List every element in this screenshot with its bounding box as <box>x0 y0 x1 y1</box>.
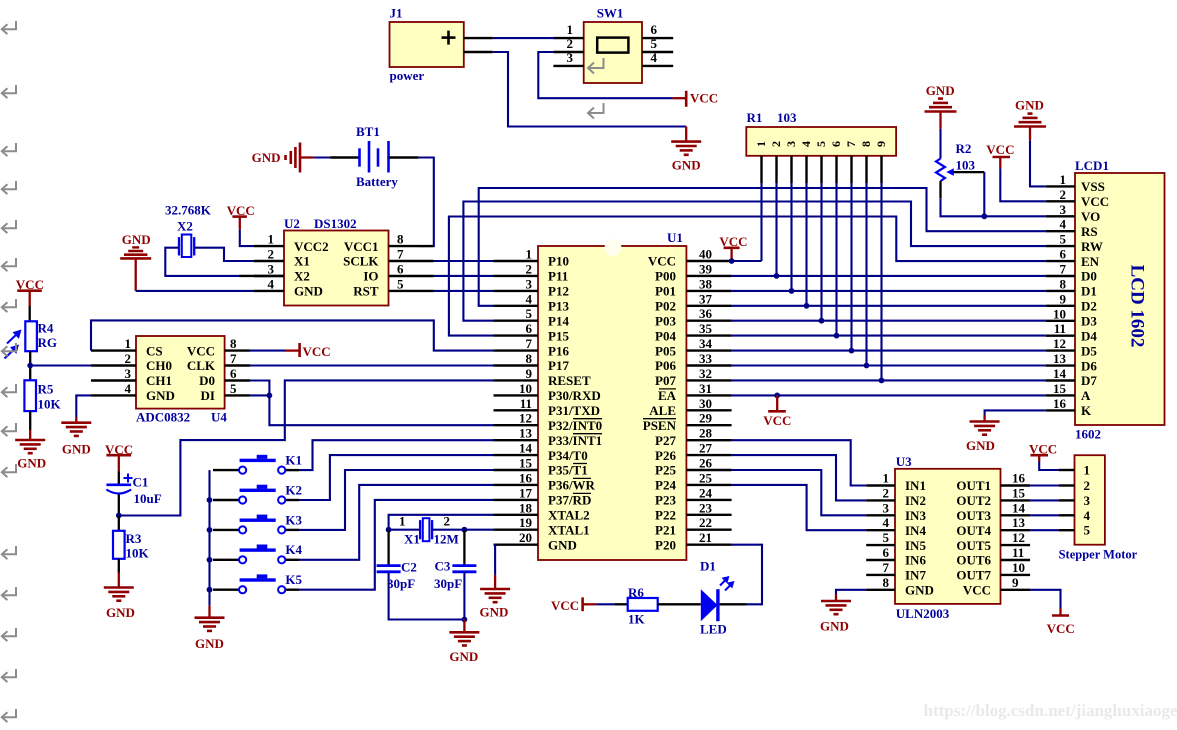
svg-text:CH1: CH1 <box>146 373 172 388</box>
svg-text:4: 4 <box>1084 508 1091 523</box>
svg-text:LCD1: LCD1 <box>1075 158 1109 173</box>
svg-text:GND: GND <box>672 158 701 173</box>
svg-text:18: 18 <box>519 500 533 515</box>
svg-text:4: 4 <box>883 515 890 530</box>
svg-text:D3: D3 <box>1081 314 1097 329</box>
svg-text:8: 8 <box>397 232 404 247</box>
svg-text:X2: X2 <box>177 219 193 234</box>
svg-text:OUT3: OUT3 <box>956 508 991 523</box>
svg-text:4: 4 <box>125 381 132 396</box>
svg-text:4: 4 <box>799 141 813 147</box>
svg-text:13: 13 <box>519 426 533 441</box>
svg-text:4: 4 <box>526 291 533 306</box>
VCC symbol above stepper pin1 <box>1029 442 1057 462</box>
wire U3 OUT2 to stepper pin3 <box>1030 499 1059 501</box>
connector Stepper Motor <box>1059 455 1138 561</box>
driver U3 ULN2003 <box>895 454 1001 621</box>
svg-text:11: 11 <box>1012 545 1024 560</box>
wire R4-R5 node to ADC CH0 <box>30 364 91 366</box>
svg-text:VSS: VSS <box>1081 179 1105 194</box>
svg-text:10uF: 10uF <box>134 491 162 506</box>
VCC symbol hanging below EA wire <box>763 395 791 428</box>
wire U3 OUT3 to stepper pin4 <box>1030 514 1059 516</box>
U4 right pin stubs <box>225 336 250 396</box>
svg-text:BT1: BT1 <box>356 124 380 139</box>
svg-text:35: 35 <box>699 321 713 336</box>
svg-text:P02: P02 <box>655 299 676 314</box>
svg-text:IO: IO <box>363 269 378 284</box>
resistor R5 10K <box>24 380 61 411</box>
gray return arrow margin 8 <box>2 343 16 356</box>
svg-text:12: 12 <box>519 411 532 426</box>
svg-text:PSEN: PSEN <box>643 418 677 433</box>
wire U1 XTAL2 to X1 <box>389 515 494 530</box>
capacitor C1 10uF <box>106 471 161 515</box>
svg-text:P15: P15 <box>548 328 569 343</box>
VCC symbol left of R6 <box>551 597 596 613</box>
gray return arrow margin 6 <box>2 258 16 271</box>
svg-text:10K: 10K <box>38 397 62 412</box>
capacitor C3 30pF <box>434 530 476 591</box>
wire U1 P06 to LCD D6 <box>732 364 1046 366</box>
ground symbol above R2 <box>925 83 957 129</box>
svg-text:6: 6 <box>230 366 237 381</box>
svg-text:8: 8 <box>883 575 890 590</box>
svg-text:12: 12 <box>1053 336 1066 351</box>
svg-text:D0: D0 <box>199 373 215 388</box>
wire U1 P02 to LCD D2 <box>732 305 1046 307</box>
svg-text:17: 17 <box>519 485 533 500</box>
ground symbol at J1 wire <box>671 127 701 173</box>
svg-text:IN3: IN3 <box>905 508 926 523</box>
svg-text:3: 3 <box>883 500 890 515</box>
svg-text:P14: P14 <box>548 313 569 328</box>
svg-text:IN2: IN2 <box>905 493 926 508</box>
wire U1 P15 to LCD EN <box>449 217 1046 336</box>
svg-text:D4: D4 <box>1081 328 1097 343</box>
svg-text:GND: GND <box>294 284 323 299</box>
svg-text:P00: P00 <box>655 269 676 284</box>
svg-text:DI: DI <box>201 388 215 403</box>
svg-text:CS: CS <box>146 343 163 358</box>
svg-text:25: 25 <box>699 470 713 485</box>
svg-text:2: 2 <box>1084 478 1091 493</box>
gray return arrow margin 10 <box>2 423 16 436</box>
svg-text:GND: GND <box>17 456 46 471</box>
svg-text:CLK: CLK <box>187 358 216 373</box>
svg-text:103: 103 <box>777 110 797 125</box>
svg-text:2: 2 <box>125 351 132 366</box>
svg-text:ULN2003: ULN2003 <box>896 606 950 621</box>
gray return arrow margin 9 <box>2 384 16 397</box>
svg-text:6: 6 <box>1060 247 1067 262</box>
junction C2-C3 ground node <box>462 617 468 623</box>
ground symbol below LCD K <box>966 415 1000 453</box>
svg-text:OUT6: OUT6 <box>956 553 991 568</box>
svg-text:ALE: ALE <box>649 403 676 418</box>
svg-text:P21: P21 <box>655 522 676 537</box>
wire U1 P13 to LCD RS <box>479 188 1046 306</box>
svg-text:2: 2 <box>444 514 451 529</box>
wire U3 OUT1 to stepper pin2 <box>1030 484 1059 486</box>
junction VCC at pin40 <box>729 258 735 264</box>
lead R5 to GND <box>29 411 31 430</box>
svg-text:1: 1 <box>567 22 574 37</box>
svg-text:32: 32 <box>699 366 712 381</box>
connector J1 <box>390 6 464 84</box>
wire U1 P25 to U3 IN3 <box>732 470 867 515</box>
svg-text:C3: C3 <box>435 559 451 574</box>
svg-text:RST: RST <box>353 284 379 299</box>
VCC symbol above R4 <box>16 277 44 306</box>
push button K4 <box>213 542 303 563</box>
wire ADC GND to ground <box>76 395 91 417</box>
junction C1-R3 node <box>116 513 122 519</box>
svg-text:39: 39 <box>699 261 713 276</box>
svg-text:7: 7 <box>230 351 237 366</box>
svg-text:27: 27 <box>699 441 713 456</box>
svg-text:21: 21 <box>699 530 712 545</box>
ground symbol above LCD VSS <box>1014 98 1046 141</box>
svg-text:power: power <box>390 68 425 83</box>
svg-text:8: 8 <box>526 351 533 366</box>
svg-text:D2: D2 <box>1081 299 1097 314</box>
svg-text:https://blog.csdn.net/jianghux: https://blog.csdn.net/jianghuxiaoge <box>924 701 1177 720</box>
svg-text:2: 2 <box>268 247 275 262</box>
svg-text:3: 3 <box>1084 493 1091 508</box>
wire VCC to U2 VCC2 pin <box>240 230 254 246</box>
svg-text:5: 5 <box>397 276 404 291</box>
svg-text:6: 6 <box>829 141 843 147</box>
svg-text:3: 3 <box>567 50 574 65</box>
wire U1 P14 to LCD RW <box>463 202 1045 321</box>
wire U1 P07 to LCD D7 <box>732 379 1046 381</box>
wire DI node to U1 P32 <box>250 395 494 425</box>
wire reset node to U1 RESET <box>119 380 494 515</box>
wire ADC CLK to U1 P17 <box>250 364 494 366</box>
wire U1 pin40 to R1 pin1 <box>732 260 762 262</box>
svg-text:C1: C1 <box>133 475 149 490</box>
wire U1 P01 to LCD D1 <box>732 290 1046 292</box>
svg-text:U2: U2 <box>284 216 300 231</box>
svg-text:XTAL2: XTAL2 <box>548 508 590 523</box>
svg-text:P11: P11 <box>548 269 568 284</box>
wire R2 wiper to VO <box>983 172 985 216</box>
svg-text:37: 37 <box>699 291 713 306</box>
svg-text:31: 31 <box>699 381 712 396</box>
VCC symbol at ADC pin8 <box>250 343 331 359</box>
wire U1 P24 to U3 IN4 <box>732 485 867 530</box>
svg-text:RG: RG <box>38 335 58 350</box>
svg-text:VCC: VCC <box>303 344 331 359</box>
svg-text:LCD 1602: LCD 1602 <box>1127 265 1148 348</box>
svg-text:19: 19 <box>519 515 533 530</box>
U2 right pin stubs <box>389 232 434 292</box>
U4 left pin stubs <box>91 336 136 396</box>
capacitor C2 30pF <box>377 530 417 591</box>
svg-text:P34/T0: P34/T0 <box>548 448 588 463</box>
potentiometer R2 103 <box>936 141 984 198</box>
wire U3 GND pin to ground <box>836 590 866 594</box>
wire U2 RST to U1 P12 <box>434 290 494 292</box>
wire ADC CS to U1 P16 <box>91 320 494 350</box>
svg-text:6: 6 <box>526 321 533 336</box>
svg-text:1: 1 <box>268 232 275 247</box>
polarity plus mark inside J1 <box>442 31 456 45</box>
svg-text:30pF: 30pF <box>387 576 415 591</box>
junction key K2 common <box>207 497 213 503</box>
junction R1 pin6 <box>834 333 840 339</box>
ground symbol below U1 pin20 <box>480 575 511 620</box>
svg-text:1602: 1602 <box>1075 427 1101 442</box>
wire LED to U1 P20 <box>732 545 762 605</box>
wire R1 pin4 down to P02 row <box>805 183 807 306</box>
ground symbol below ADC <box>61 417 91 457</box>
switch SW1 <box>584 6 642 84</box>
svg-text:VCC: VCC <box>963 583 991 598</box>
svg-text:33: 33 <box>699 351 713 366</box>
svg-text:D5: D5 <box>1081 343 1097 358</box>
svg-text:36: 36 <box>699 306 713 321</box>
svg-text:7: 7 <box>397 247 404 262</box>
svg-text:IN5: IN5 <box>905 538 926 553</box>
svg-text:OUT4: OUT4 <box>956 523 991 538</box>
svg-text:12: 12 <box>1012 530 1025 545</box>
svg-text:IN6: IN6 <box>905 553 926 568</box>
svg-text:15: 15 <box>519 456 533 471</box>
wire LCD K to ground <box>985 410 1046 415</box>
svg-text:J1: J1 <box>390 6 403 21</box>
junction key K5 common <box>207 587 213 593</box>
LED D1 <box>700 559 747 637</box>
wire R1 pin3 down to P01 row <box>790 183 792 291</box>
svg-text:13: 13 <box>1012 515 1026 530</box>
svg-text:SCLK: SCLK <box>343 254 379 269</box>
VCC symbol above C1 <box>105 442 133 471</box>
svg-text:R5: R5 <box>38 382 54 397</box>
ground symbol below R5 <box>15 430 46 471</box>
svg-text:7: 7 <box>526 336 533 351</box>
svg-text:C2: C2 <box>401 560 417 575</box>
svg-text:3: 3 <box>125 366 132 381</box>
VCC symbol right of SW1 wire <box>672 91 718 107</box>
U3 left pin stubs <box>866 471 895 590</box>
junction R1 pin2 <box>774 273 780 279</box>
wire VCC to stepper pin1 <box>1039 462 1058 471</box>
svg-text:9: 9 <box>874 141 888 147</box>
svg-text:4: 4 <box>268 276 275 291</box>
wire R1 pin7 down to P05 row <box>850 183 852 351</box>
crystal X2 32.768K <box>165 203 212 258</box>
VCC symbol at U1 pin40 <box>719 234 747 261</box>
svg-text:OUT7: OUT7 <box>956 568 991 583</box>
resistor R3 10K <box>113 516 150 573</box>
gray return arrow margin 5 <box>2 220 16 233</box>
svg-text:2: 2 <box>567 36 574 51</box>
ground symbol left of U2 <box>120 232 151 291</box>
svg-text:GND: GND <box>122 232 151 247</box>
pin 1 stub of J1 <box>464 37 493 39</box>
svg-text:GND: GND <box>905 583 934 598</box>
svg-text:U4: U4 <box>211 410 227 425</box>
R1 pin stubs <box>762 156 882 183</box>
wire K5 to U1 P37 <box>299 500 494 590</box>
svg-text:1: 1 <box>1084 463 1091 478</box>
ground symbol below keys <box>195 606 225 651</box>
svg-text:14: 14 <box>1053 366 1067 381</box>
svg-text:1K: 1K <box>628 612 646 627</box>
svg-text:7: 7 <box>1060 262 1067 277</box>
svg-text:26: 26 <box>699 456 713 471</box>
U1 left pin stubs <box>494 247 539 546</box>
svg-text:5: 5 <box>883 530 890 545</box>
svg-text:P13: P13 <box>548 299 569 314</box>
wire R2 bottom to LCD VO <box>941 198 1046 216</box>
svg-text:K3: K3 <box>285 512 302 527</box>
wire U1 P04 to LCD D4 <box>732 335 1046 337</box>
svg-text:6: 6 <box>651 22 658 37</box>
wire X1 to U1 XTAL1 <box>464 529 493 531</box>
VCC symbol above LCD VCC pin <box>986 142 1014 168</box>
junction R1 pin3 <box>789 288 795 294</box>
svg-text:9: 9 <box>1012 575 1019 590</box>
junction VO <box>981 213 987 219</box>
svg-text:VCC2: VCC2 <box>294 239 329 254</box>
svg-text:P07: P07 <box>655 373 676 388</box>
svg-text:A: A <box>1081 388 1091 403</box>
svg-text:5: 5 <box>814 141 828 147</box>
wire J1 pin2 to GND <box>493 52 687 127</box>
svg-text:EA: EA <box>658 388 677 403</box>
svg-text:14: 14 <box>1012 500 1026 515</box>
svg-text:Stepper Motor: Stepper Motor <box>1059 548 1138 562</box>
wire J1 pin1 to SW1 pin1 <box>493 37 555 39</box>
wire U1 P05 to LCD D5 <box>732 350 1046 352</box>
svg-text:P22: P22 <box>655 508 676 523</box>
svg-text:P17: P17 <box>548 358 569 373</box>
svg-text:P16: P16 <box>548 343 569 358</box>
svg-text:3: 3 <box>526 276 533 291</box>
wire GND to R2 top <box>939 129 941 159</box>
svg-text:RW: RW <box>1081 239 1103 254</box>
junction R1 pin8 <box>864 363 870 369</box>
gray return arrow margin 11 <box>2 464 16 477</box>
svg-text:9: 9 <box>1060 291 1067 306</box>
svg-text:GND: GND <box>548 537 577 552</box>
wire ADC D0 to DI node <box>250 381 269 396</box>
VCC symbol below U3 pin9 <box>1047 608 1075 636</box>
wire VCC to R6 <box>596 603 614 605</box>
svg-text:R4: R4 <box>38 321 54 336</box>
svg-text:D7: D7 <box>1081 373 1097 388</box>
svg-text:1: 1 <box>883 471 890 486</box>
svg-text:CH0: CH0 <box>146 358 172 373</box>
svg-text:P06: P06 <box>655 358 676 373</box>
push button K2 <box>213 482 302 503</box>
svg-text:16: 16 <box>1053 396 1067 411</box>
wire R1 pin5 down to P03 row <box>820 183 822 321</box>
svg-text:RESET: RESET <box>548 373 591 388</box>
svg-text:Battery: Battery <box>356 174 398 189</box>
svg-text:P25: P25 <box>655 463 676 478</box>
svg-text:29: 29 <box>699 411 713 426</box>
svg-text:1: 1 <box>125 336 132 351</box>
resistor network R1 103 <box>746 110 896 156</box>
wire K2 to U1 P34 <box>299 455 494 500</box>
junction EA VCC <box>774 393 780 399</box>
svg-text:1: 1 <box>1060 172 1067 187</box>
push button K5 <box>213 572 303 593</box>
svg-text:VCC: VCC <box>690 91 718 106</box>
svg-text:GND: GND <box>449 649 478 664</box>
svg-text:12M: 12M <box>434 532 459 547</box>
svg-text:10: 10 <box>1012 560 1025 575</box>
svg-text:P05: P05 <box>655 343 676 358</box>
svg-text:GND: GND <box>195 636 224 651</box>
SW1 left pin stubs <box>553 22 583 66</box>
wire U1 EA to LCD A <box>732 394 1046 396</box>
wire GND to U2 GND pin <box>136 290 254 292</box>
svg-text:U1: U1 <box>667 230 683 245</box>
svg-text:R3: R3 <box>126 531 142 546</box>
svg-text:K4: K4 <box>285 542 302 557</box>
ground symbol below R3 <box>104 573 135 621</box>
svg-text:VCC: VCC <box>648 254 676 269</box>
svg-text:11: 11 <box>1054 321 1066 336</box>
svg-text:D0: D0 <box>1081 269 1097 284</box>
svg-text:15: 15 <box>1012 485 1026 500</box>
svg-text:23: 23 <box>699 500 713 515</box>
svg-text:VCC: VCC <box>551 598 579 613</box>
svg-text:IN4: IN4 <box>905 523 926 538</box>
wire R1 pin9 down to P07 row <box>880 183 882 380</box>
wire K1 to U1 P33 <box>299 440 494 470</box>
svg-text:8: 8 <box>859 141 873 147</box>
svg-text:22: 22 <box>699 515 712 530</box>
svg-text:16: 16 <box>519 470 533 485</box>
svg-text:P32/INT0: P32/INT0 <box>548 418 602 433</box>
gray return arrow margin 13 <box>2 587 16 600</box>
pin 2 stub of J1 <box>464 51 493 53</box>
wire U1 P26 to U3 IN2 <box>732 455 867 500</box>
push button K1 <box>213 453 302 474</box>
svg-text:8: 8 <box>230 336 237 351</box>
svg-text:4: 4 <box>651 50 658 65</box>
svg-text:32.768K: 32.768K <box>165 203 212 218</box>
svg-text:OUT5: OUT5 <box>956 538 991 553</box>
svg-text:DS1302: DS1302 <box>314 216 357 231</box>
ground symbol below U3 GND <box>820 594 851 634</box>
svg-text:XTAL1: XTAL1 <box>548 522 590 537</box>
svg-text:2: 2 <box>883 485 890 500</box>
wire SW1 pin2 to VCC <box>538 52 672 98</box>
wire U1 P27 to U3 IN1 <box>732 440 867 485</box>
svg-text:K: K <box>1081 403 1092 418</box>
svg-text:3: 3 <box>1060 202 1067 217</box>
svg-text:VCC: VCC <box>187 343 215 358</box>
svg-text:LED: LED <box>700 622 727 637</box>
svg-text:R2: R2 <box>956 141 972 156</box>
gray return arrow margin 2 <box>2 85 16 98</box>
svg-text:IN1: IN1 <box>905 478 926 493</box>
svg-text:EN: EN <box>1081 254 1100 269</box>
svg-text:VCC: VCC <box>1081 194 1109 209</box>
svg-text:1: 1 <box>399 514 406 529</box>
svg-text:VCC: VCC <box>986 142 1014 157</box>
junction key K4 common <box>207 557 213 563</box>
svg-text:P20: P20 <box>655 537 676 552</box>
svg-text:OUT1: OUT1 <box>956 478 991 493</box>
